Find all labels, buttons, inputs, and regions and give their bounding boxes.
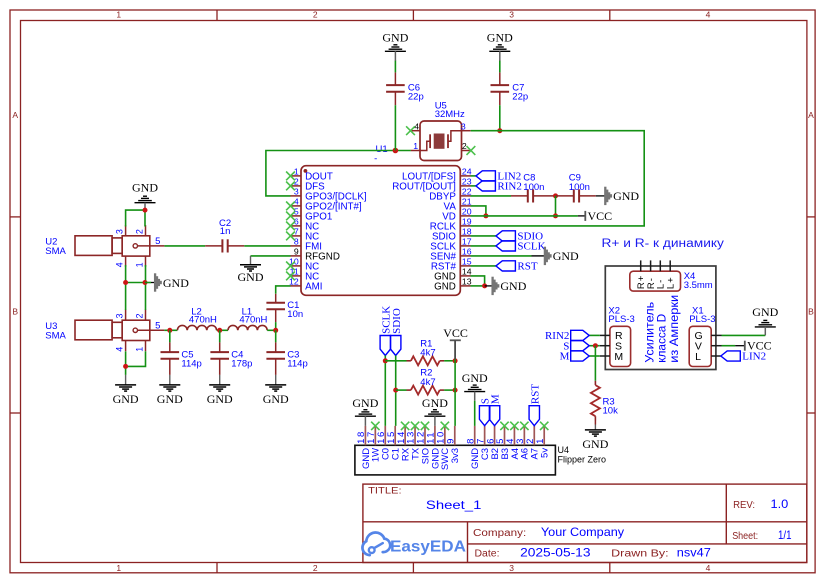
ground GND at RFGND [238, 256, 264, 284]
title block texts [368, 486, 792, 560]
wire C7 leads [499, 61, 501, 131]
wire U1 AMI to C1 [276, 286, 291, 294]
svg-text:L: L [695, 351, 701, 363]
svg-text:100n: 100n [569, 182, 590, 193]
U1 pin 23 ROUT/[DOUT] [392, 177, 472, 193]
capacitor C2 1n [205, 218, 244, 253]
power flag VCC above U4 [443, 326, 468, 359]
connector X2 PLS-3 [600, 305, 635, 366]
svg-text:114p: 114p [181, 358, 201, 369]
U5 pin 1 [411, 141, 420, 151]
svg-text:2: 2 [134, 313, 144, 318]
U1 pin 7 NC [291, 227, 320, 243]
svg-text:U1: U1 [376, 144, 388, 155]
junction C7 on crystal pin3 wire [497, 128, 502, 133]
wire C6 to junction [394, 61, 396, 151]
junction C5 tap [167, 328, 172, 333]
ground flag GND at SEN# [471, 255, 545, 257]
svg-text:GND: GND [434, 281, 456, 292]
ground flag GND at U2 shield [145, 282, 155, 284]
frame column labels [116, 9, 710, 572]
svg-text:GND: GND [382, 31, 408, 45]
svg-text:AMI: AMI [305, 281, 322, 292]
svg-text:PLS-3: PLS-3 [689, 314, 715, 325]
net flag LIN2 at X1.L [721, 351, 766, 363]
U5 pin 4 (NC) [406, 121, 420, 135]
U1 pin 19 RCLK [430, 217, 472, 233]
junction U3 shield ground [123, 364, 128, 369]
wire C8/C9 node down to VD [555, 196, 557, 216]
wire U2 pin5 to C2 [164, 245, 205, 247]
wire C1 to filter node [275, 322, 277, 330]
svg-text:3: 3 [509, 9, 514, 19]
U4 pin 4 A4 [505, 426, 521, 460]
net flag RIN2 at X2.R [589, 334, 600, 336]
U4 pin 5 B3 [495, 426, 511, 460]
svg-text:REV:: REV: [733, 500, 755, 511]
wire U2 pins 2-3 top tie [126, 210, 145, 226]
svg-text:3: 3 [114, 313, 124, 318]
svg-text:EasyEDA: EasyEDA [390, 539, 466, 556]
net flag LIN2 at U1 pin24 [471, 175, 476, 177]
wire U1 GND pins 14/13 [471, 276, 485, 286]
svg-text:5v: 5v [540, 448, 551, 458]
U3 pin 1 [134, 341, 145, 352]
svg-text:470nH: 470nH [189, 315, 217, 326]
svg-text:SDIO: SDIO [391, 308, 403, 334]
svg-text:1: 1 [116, 9, 121, 19]
svg-text:GND: GND [487, 31, 513, 45]
U3 pin 5 [138, 320, 165, 331]
capacitor C1 10n [266, 294, 303, 322]
ground GND at U4 pin11 [422, 396, 448, 426]
svg-text:B: B [12, 307, 18, 317]
U4 pin 8 GND [465, 426, 481, 469]
U1 pin 15 RST# [431, 257, 472, 273]
svg-text:1: 1 [116, 563, 121, 573]
svg-text:GND: GND [163, 276, 189, 290]
U1 pin 10 NC [289, 257, 319, 273]
U4 pin 6 B2 [485, 426, 501, 460]
svg-text:4k7: 4k7 [420, 348, 435, 359]
svg-text:20: 20 [462, 207, 472, 217]
svg-text:1: 1 [413, 141, 418, 151]
U1 no-connect marks [286, 172, 295, 281]
U2 pin 3 [114, 225, 125, 236]
U1 pin 18 SDIO [432, 227, 472, 243]
U4 pin 1 5v [535, 426, 551, 458]
junction R1 left [383, 358, 388, 363]
svg-text:Sheet:: Sheet: [732, 531, 758, 542]
svg-text:32MHz: 32MHz [435, 109, 465, 120]
svg-text:SMA: SMA [45, 331, 66, 342]
svg-text:GND: GND [132, 181, 158, 195]
junction S to R3 [593, 343, 598, 348]
svg-text:RST: RST [529, 384, 541, 404]
svg-text:GND: GND [553, 249, 579, 263]
U4 pin 9 3v3 [445, 426, 461, 463]
wire C2 to U1 FMI [244, 245, 290, 247]
net flag RIN2 at U1 pin23 [471, 185, 476, 187]
wire VA down to VD [471, 206, 486, 216]
U1 pin 24 LOUT/[DFS] [402, 167, 472, 183]
svg-text:470nH: 470nH [239, 315, 267, 326]
svg-text:TITLE:: TITLE: [368, 486, 402, 496]
svg-text:9: 9 [445, 437, 456, 444]
U3 pin 3 [114, 310, 125, 321]
U5 pin 2 (NC) [462, 141, 476, 155]
U4 pin 14 RX [396, 426, 412, 461]
ground GND at X1.G [752, 305, 778, 335]
svg-text:RIN2: RIN2 [497, 181, 521, 193]
svg-text:A: A [808, 110, 814, 120]
svg-text:3.5mm: 3.5mm [684, 280, 713, 291]
svg-text:GND: GND [613, 189, 639, 203]
svg-text:18: 18 [462, 227, 472, 237]
svg-text:из Амперки: из Амперки [667, 295, 681, 363]
net flag S at X2.S [589, 345, 600, 347]
wire SCLK to U4 pin16 [384, 356, 386, 426]
U4 pin 17 1W [366, 426, 382, 462]
junction R2 right [453, 388, 458, 393]
net flag RST at U1 pin15 [471, 265, 496, 267]
inductor L1 470nH [228, 307, 268, 331]
wire U3 pin5 to L2 [164, 329, 177, 331]
resistor R1 4k7 [407, 338, 445, 365]
svg-text:Drawn By:: Drawn By: [611, 549, 668, 560]
U1 pin 17 SCLK [430, 237, 471, 253]
junction GND pins [482, 283, 487, 288]
U1 pin 4 GPO2/[INT#] [291, 197, 362, 213]
svg-text:2025-05-13: 2025-05-13 [520, 546, 591, 560]
ground GND below C5 [157, 375, 183, 406]
svg-text:SMA: SMA [45, 246, 66, 257]
U1 pin 6 NC [291, 217, 320, 233]
capacitor C5 114p [161, 330, 202, 375]
svg-text:LIN2: LIN2 [742, 351, 766, 363]
connector U3 SMA body [45, 320, 150, 341]
U4 pin 11 GND [426, 426, 442, 469]
junction R1 right [453, 358, 458, 363]
U2 pin 1 [134, 256, 145, 267]
junction C3/C1 node [273, 328, 278, 333]
U3 pin 4 [114, 341, 125, 352]
ground GND below C3 [263, 375, 289, 406]
svg-text:3v3: 3v3 [450, 448, 461, 463]
svg-text:3: 3 [294, 187, 299, 197]
ground flag GND after C9 [596, 195, 605, 197]
capacitor C6 22p [386, 72, 424, 105]
svg-text:21: 21 [462, 197, 472, 207]
note text R+ and R- to speaker [602, 238, 725, 250]
net flag SDIO vertical [391, 308, 403, 355]
svg-text:3: 3 [509, 563, 514, 573]
svg-text:1n: 1n [220, 226, 231, 237]
wire X1.G to ground [722, 334, 766, 336]
svg-text:GND: GND [422, 396, 448, 410]
svg-text:12: 12 [289, 277, 299, 287]
ground GND at U4 pin18 [352, 396, 378, 426]
svg-text:Sheet_1: Sheet_1 [426, 498, 482, 512]
svg-text:RST: RST [517, 261, 537, 273]
wire L2 to L1 [217, 329, 228, 331]
svg-text:Date:: Date: [475, 549, 500, 560]
svg-text:4: 4 [706, 563, 711, 573]
wire U1 GPO3 to crystal pin 1 [266, 151, 411, 196]
junction R2 left [393, 388, 398, 393]
power flag VCC at VD [585, 209, 612, 223]
U1 pin 16 SEN# [430, 247, 471, 263]
capacitor C7 22p [491, 72, 529, 105]
capacitor C8 100n [511, 172, 556, 202]
U1 pin 8 FMI [291, 237, 322, 253]
ground GND at U4 pin8 [474, 401, 476, 426]
svg-text:22: 22 [462, 187, 472, 197]
svg-text:L+: L+ [665, 276, 676, 289]
junction crystal pin1 / C6 [393, 148, 399, 154]
svg-text:3: 3 [114, 229, 124, 234]
EasyEDA logo [362, 533, 466, 556]
svg-text:M: M [490, 394, 502, 404]
wire SDIO to U4 pin15 [395, 356, 397, 426]
svg-text:4: 4 [114, 262, 124, 267]
svg-text:4: 4 [114, 347, 124, 352]
op-amp U1 body (Si4703 FM tuner IC) [301, 144, 460, 295]
U1 pin 21 VA [444, 197, 472, 213]
U4 pin 7 C3 [475, 426, 491, 460]
svg-text:Your Company: Your Company [541, 525, 624, 539]
wire L1 to C1/C3 node [267, 329, 276, 331]
wire R2 leads [396, 389, 455, 391]
connector X4 3.5mm [630, 260, 713, 291]
U3 pin 2 [134, 310, 145, 321]
svg-text:1/1: 1/1 [778, 528, 792, 542]
U2 pin 5 [138, 236, 165, 247]
svg-text:15: 15 [462, 257, 472, 267]
svg-text:16: 16 [462, 247, 472, 257]
capacitor C3 114p [266, 330, 307, 375]
svg-text:178p: 178p [231, 358, 252, 369]
junction U2 top GND [143, 208, 148, 213]
svg-text:5: 5 [155, 320, 160, 331]
svg-text:GND: GND [157, 392, 183, 406]
svg-text:2: 2 [462, 141, 467, 151]
svg-text:PLS-3: PLS-3 [608, 314, 634, 325]
junction VD/C8 node [553, 213, 558, 218]
svg-text:1.0: 1.0 [771, 497, 789, 511]
svg-text:3: 3 [461, 121, 466, 131]
wire VD to VCC [471, 215, 585, 217]
junction VA/VD [483, 213, 488, 218]
connector X1 PLS-3 [689, 305, 721, 366]
U2 pin 2 [134, 225, 145, 236]
wire VCC to U4 pin9 [454, 359, 456, 426]
svg-text:100n: 100n [523, 182, 544, 193]
svg-text:2: 2 [313, 9, 318, 19]
U1 pin 14 GND [434, 267, 472, 283]
svg-text:13: 13 [462, 277, 472, 287]
resistor R2 4k7 [407, 368, 445, 395]
connector U2 SMA body [45, 236, 150, 257]
power flag VCC at X1.V [745, 339, 772, 353]
svg-text:17: 17 [462, 237, 472, 247]
svg-text:10n: 10n [287, 309, 303, 320]
svg-text:2: 2 [313, 563, 318, 573]
svg-text:GND: GND [582, 437, 608, 451]
U1 pin 12 AMI [289, 277, 322, 293]
svg-text:1: 1 [535, 437, 546, 444]
svg-text:GND: GND [752, 305, 778, 319]
U1 pin 9 RFGND [291, 247, 340, 263]
svg-text:8: 8 [294, 237, 299, 247]
ground GND below C4 [207, 375, 233, 406]
svg-text:GND: GND [500, 279, 526, 293]
svg-text:GND: GND [352, 396, 378, 410]
amplifier module vertical label [642, 295, 680, 363]
U1 pin 1 DOUT [291, 167, 333, 183]
wire S to R3 [594, 346, 596, 381]
svg-text:GND: GND [238, 270, 264, 284]
junction U2 pin1 column [143, 280, 148, 285]
inductor L2 470nH [177, 307, 217, 331]
wire crystal pin3 to U1 RCLK [471, 131, 645, 226]
svg-text:Company:: Company: [473, 528, 526, 539]
capacitor C4 178p [210, 330, 252, 375]
wire R1 leads [385, 360, 455, 362]
junction C8/C9 [553, 193, 558, 198]
U1 pin 3 GPO3/[DCLK] [291, 187, 367, 203]
wire U1 RFGND to ground [251, 255, 291, 257]
svg-text:GND: GND [113, 392, 139, 406]
frame row labels [12, 110, 814, 317]
svg-text:19: 19 [462, 217, 472, 227]
svg-text:4: 4 [706, 9, 711, 19]
ground GND above C6 [382, 31, 408, 61]
U4 pin 16 C0 [376, 426, 392, 460]
svg-text:SCLK: SCLK [517, 241, 545, 253]
ground GND below R3 [594, 421, 596, 425]
junction C4 tap [217, 328, 222, 333]
svg-text:14: 14 [462, 267, 472, 277]
U4 pin 10 SWC [436, 426, 452, 470]
resistor R3 10k [591, 381, 618, 421]
junction U2 pin4 column [123, 280, 128, 285]
svg-text:GND: GND [263, 392, 289, 406]
U4 no-connect marks [371, 422, 548, 430]
svg-text:M: M [560, 351, 570, 363]
svg-text:Flipper Zero: Flipper Zero [558, 454, 607, 464]
U1 pin 11 NC [290, 267, 320, 283]
svg-text:2: 2 [134, 229, 144, 234]
net flag SCLK vertical [380, 306, 392, 356]
U1 pin 13 GND [434, 277, 472, 293]
svg-text:M: M [614, 351, 623, 363]
U4 pin 18 GND [356, 426, 372, 469]
svg-text:VCC: VCC [443, 326, 468, 340]
U4 pin 2 A7 [525, 426, 541, 460]
crystal U5 32MHz [420, 101, 465, 161]
svg-text:114p: 114p [287, 358, 307, 369]
ground GND above U2 [132, 181, 158, 210]
wire U2 pins 4-1 bottom tie to U3 [126, 265, 146, 310]
amplifier module block [605, 266, 716, 370]
U1 pin 22 DBYP [429, 187, 472, 203]
svg-text:24: 24 [462, 167, 472, 177]
U1 pin 5 GPO1 [291, 207, 333, 223]
ground GND below U3 [113, 375, 139, 406]
svg-text:22p: 22p [512, 91, 528, 102]
net flag SCLK at U1 pin17 [471, 245, 496, 247]
ground flag GND at U1 pin13 [485, 285, 493, 287]
svg-text:GND: GND [462, 371, 488, 385]
U5 pin 3 [461, 121, 471, 131]
U4 pin 3 A6 [515, 426, 531, 460]
svg-text:GND: GND [207, 392, 233, 406]
U2 pin 4 [114, 256, 125, 267]
svg-text:23: 23 [462, 177, 472, 187]
wire DBYP to C8 [471, 195, 512, 197]
net flag S at U4 pin7 [479, 398, 491, 426]
svg-text:9: 9 [294, 247, 299, 257]
net flag RST at U4 pin2 [529, 384, 541, 426]
net flag SDIO at U1 pin18 [471, 235, 496, 237]
svg-text:1: 1 [134, 262, 144, 267]
svg-text:22p: 22p [408, 91, 424, 102]
net flag M at X2.M [589, 355, 600, 357]
svg-text:1: 1 [134, 347, 144, 352]
svg-text:5: 5 [155, 236, 160, 247]
connector U4 Flipper Zero body [355, 445, 606, 475]
svg-text:R+ и R- к динамику: R+ и R- к динамику [602, 238, 725, 250]
svg-text:-: - [374, 154, 377, 165]
capacitor C9 100n [556, 172, 596, 202]
svg-text:A: A [12, 110, 18, 120]
wire X1.V to VCC [722, 345, 745, 347]
U1 pin 2 DFS [291, 177, 326, 193]
U4 pin 15 C1 [386, 426, 402, 460]
title block [363, 484, 807, 562]
svg-text:VCC: VCC [588, 209, 613, 223]
wire U3 pins 4-1 join to ground [126, 351, 146, 375]
svg-text:4: 4 [414, 121, 419, 131]
svg-text:10k: 10k [603, 406, 619, 417]
U4 pin 12 SIO [416, 426, 432, 464]
U4 pin 13 TX [406, 426, 422, 460]
svg-text:nsv47: nsv47 [677, 546, 711, 560]
svg-text:4k7: 4k7 [420, 377, 435, 388]
net flag M at U4 pin6 [489, 394, 501, 426]
U1 pin 20 VD [442, 207, 471, 223]
svg-text:B: B [808, 307, 814, 317]
ground GND above C7 [487, 31, 513, 61]
